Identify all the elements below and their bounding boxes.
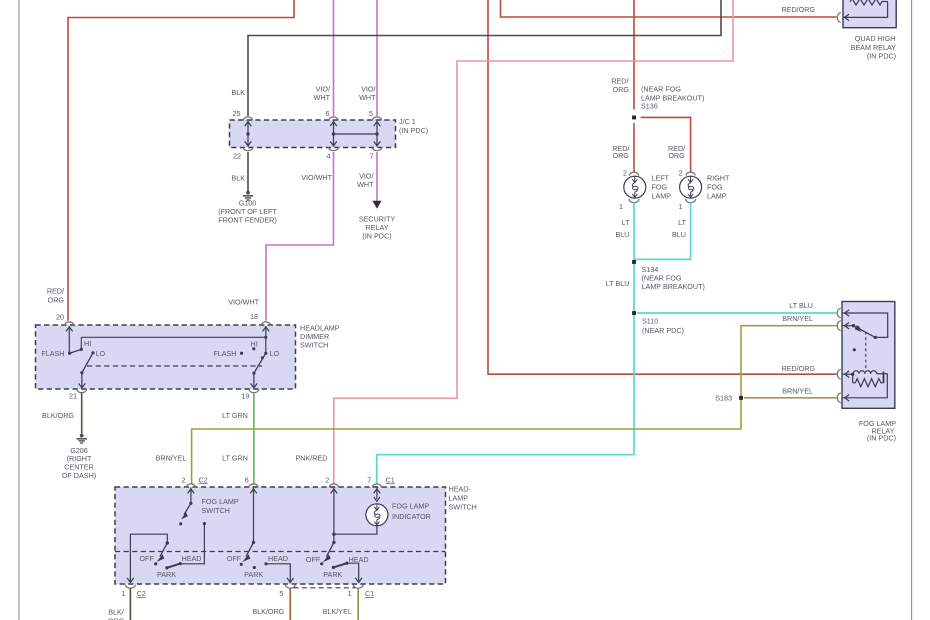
fog lamp indicator bottom leg	[334, 526, 377, 534]
dimmer pin numbers	[56, 312, 258, 401]
S110 labels	[642, 316, 684, 335]
svg-text:25: 25	[233, 109, 241, 118]
headlamp dimmer switch box	[36, 325, 296, 389]
fog lamp indicator leg from pin 7	[374, 488, 381, 502]
right fog lamp dome	[686, 172, 695, 175]
svg-text:BLK: BLK	[231, 88, 245, 97]
svg-text:OFF: OFF	[306, 555, 321, 564]
dimmer right blade to pin 19	[251, 353, 266, 388]
svg-text:2: 2	[679, 168, 683, 177]
svg-text:OFF: OFF	[227, 554, 242, 563]
headlamp switch bottom pin numbers	[121, 589, 374, 598]
fog lamp indicator label	[392, 502, 431, 521]
right fog lamp cup	[686, 199, 696, 203]
middle bank PARK contact	[253, 566, 256, 569]
quad relay connector	[837, 12, 840, 22]
svg-text:1: 1	[348, 589, 352, 598]
splice S183	[739, 396, 743, 400]
label BRN/YEL at headlamp switch	[156, 454, 187, 463]
wire RED/ORG to quad high beam relay	[501, 0, 837, 17]
svg-text:18: 18	[250, 312, 258, 321]
svg-text:7: 7	[367, 475, 371, 484]
wire RED/ORG from top to dimmer pin 20	[68, 0, 294, 321]
svg-text:FOG LAMP: FOG LAMP	[392, 502, 429, 511]
dimmer left blade to HI contact	[70, 337, 83, 353]
quad relay entry arrow	[845, 14, 850, 21]
svg-text:FLASH: FLASH	[213, 349, 236, 358]
labels LT BLU at fog lamps	[616, 218, 687, 239]
svg-text:(NEAR PDC): (NEAR PDC)	[642, 326, 684, 335]
svg-text:5: 5	[279, 589, 283, 598]
dimmer HI bus line	[81, 336, 267, 339]
middle bank HEAD contact to pin 5	[264, 562, 293, 583]
headlamp switch bottom wire BLK/ pin 1 C2	[129, 588, 131, 620]
svg-text:20: 20	[56, 312, 64, 321]
dimmer pin 18 dome	[261, 322, 270, 325]
middle bank: pin 6 leg and pivot	[250, 488, 257, 545]
svg-text:LAMP: LAMP	[707, 191, 727, 200]
svg-text:SWITCH: SWITCH	[300, 340, 328, 349]
svg-text:WHT: WHT	[314, 93, 331, 102]
headlamp switch bottom pin cups	[125, 585, 363, 589]
dimmer right FLASH and HI contacts	[240, 347, 255, 355]
right fog lamp label	[707, 173, 730, 200]
svg-text:SWITCH: SWITCH	[202, 506, 230, 515]
svg-text:6: 6	[245, 475, 249, 484]
svg-text:LO: LO	[96, 349, 106, 358]
wire LT BLU S110 to fog lamp relay	[637, 312, 837, 314]
fog lamp indicator bulb	[366, 504, 388, 526]
headlamp switch bottom wire BLK/ORG pin 5	[289, 588, 291, 620]
fog relay open contact dot	[853, 348, 856, 351]
J/C 1 internal bus pin 6 to pin 5	[334, 133, 378, 135]
labels VIO/WHT pin 7	[357, 171, 374, 189]
fog lamp pin numbers	[619, 168, 683, 211]
J/C pin cups (bottom)	[243, 147, 382, 151]
wire BRN/YEL S183 to fog relay pin 4	[744, 397, 837, 399]
S134 labels	[642, 265, 705, 291]
svg-text:ORG: ORG	[613, 85, 630, 94]
headlamp switch label	[449, 485, 477, 512]
svg-text:ORG: ORG	[48, 296, 65, 305]
svg-text:VIO/WHT: VIO/WHT	[301, 173, 332, 182]
left bank: pin 1 C2 wire and pivot	[127, 534, 169, 583]
left bank blade to OFF	[154, 543, 167, 565]
svg-text:HEAD-: HEAD-	[449, 485, 472, 494]
left bank position labels	[139, 554, 201, 579]
dimmer left switch: pin 20 leg	[66, 326, 73, 355]
S136 labels	[611, 77, 704, 111]
svg-text:RED/: RED/	[47, 287, 64, 296]
svg-text:BLK/: BLK/	[108, 608, 124, 617]
middle bank position labels	[227, 554, 288, 579]
svg-text:BLK/ORG: BLK/ORG	[252, 607, 284, 616]
J/C 1 internal column pin 25/22	[246, 121, 249, 147]
headlamp switch top pin numbers	[182, 475, 395, 484]
left page border line	[18, 0, 20, 620]
svg-text:HI: HI	[84, 339, 91, 348]
svg-text:(IN PDC): (IN PDC)	[399, 126, 428, 135]
svg-text:LT GRN: LT GRN	[222, 454, 248, 463]
svg-text:RED/ORG: RED/ORG	[781, 5, 815, 14]
label PNK/RED at headlamp switch	[296, 454, 328, 463]
svg-text:21: 21	[69, 391, 77, 400]
J/C 1 internal column pin 5/7	[375, 121, 378, 147]
dimmer right switch: pin 18 leg	[263, 326, 270, 355]
svg-text:BLK/YEL: BLK/YEL	[323, 607, 352, 616]
label BLK pin 25	[231, 88, 245, 97]
svg-text:C2: C2	[199, 475, 208, 484]
svg-text:19: 19	[242, 391, 250, 400]
svg-text:BRN/YEL: BRN/YEL	[782, 314, 813, 323]
right fog lamp bulb	[680, 176, 702, 198]
left fog lamp dome	[629, 172, 638, 175]
label VIO/WHT near pin 4	[301, 173, 332, 182]
security relay arrow	[372, 201, 381, 209]
label LT BLU at relay	[789, 301, 813, 310]
label BLK/ (clipped)	[108, 608, 125, 620]
label BRN/YEL (relay pin 4)	[782, 387, 813, 396]
svg-text:6: 6	[326, 109, 330, 118]
labels LT GRN	[222, 411, 248, 463]
J/C 1 internal column pin 6/4	[332, 121, 335, 147]
label BLK/ORG	[42, 411, 74, 420]
fog relay coil with parallel resistor	[843, 371, 888, 401]
right bank blade to OFF	[320, 542, 334, 565]
svg-text:LT BLU: LT BLU	[789, 301, 813, 310]
wire LT GRN dimmer pin 19 to headlamp switch pin 6	[253, 393, 255, 485]
svg-text:WHT: WHT	[359, 93, 376, 102]
svg-text:5: 5	[369, 109, 373, 118]
dashed connector link pin 5 to pin 1 C1	[294, 587, 356, 589]
svg-text:(IN PDC): (IN PDC)	[362, 232, 391, 241]
svg-text:QUAD HIGH: QUAD HIGH	[855, 34, 896, 43]
S183 label	[715, 393, 732, 402]
svg-text:S183: S183	[715, 393, 732, 402]
label BLK/ORG	[252, 607, 284, 616]
splice S110	[632, 311, 636, 315]
svg-text:S110: S110	[642, 316, 658, 325]
svg-text:(NEAR FOG: (NEAR FOG	[641, 84, 681, 93]
dimmer pin 20 dome	[65, 322, 74, 325]
label RED/ORG at fog relay	[781, 364, 815, 373]
ground G100	[243, 191, 253, 200]
left bank PARK blade	[165, 564, 180, 570]
wire VIO/WHT to J/C pin 6	[333, 0, 335, 116]
svg-text:RED/ORG: RED/ORG	[781, 364, 815, 373]
label LT BLU below S134	[606, 279, 630, 288]
G206 label	[62, 446, 96, 480]
svg-text:FOG: FOG	[652, 182, 668, 191]
wire VIO/WHT from J/C pin 7 to security relay	[376, 152, 378, 201]
J/C pin domes (top)	[243, 117, 381, 120]
wire VIO/WHT to J/C pin 5	[376, 0, 378, 116]
fog relay connectors	[837, 308, 840, 403]
J/C 1 label	[399, 117, 428, 135]
svg-text:VIO/WHT: VIO/WHT	[228, 298, 259, 307]
fog lamp switch output contact to HEAD contact	[180, 522, 206, 564]
svg-text:BRN/YEL: BRN/YEL	[782, 387, 813, 396]
label VIO/WHT above dimmer pin 18	[228, 298, 259, 307]
right bank: pin 2 C1 leg and pivot	[331, 488, 338, 545]
wire label RED/ORG (dimmer feed)	[47, 287, 65, 305]
svg-text:1: 1	[679, 202, 683, 211]
svg-text:PARK: PARK	[323, 570, 342, 579]
wire PNK/RED from top to headlamp switch pin 2 C1	[334, 0, 733, 484]
fog relay internal: BRN/YEL leg and blade	[843, 322, 876, 337]
svg-text:C1: C1	[386, 475, 395, 484]
left fog lamp label	[652, 173, 672, 200]
svg-text:2: 2	[623, 168, 627, 177]
labels VIO/WHT above J/C	[314, 85, 376, 103]
svg-text:BEAM RELAY: BEAM RELAY	[851, 43, 897, 52]
headlamp switch box	[115, 487, 446, 584]
dimmer left contact labels	[41, 339, 105, 358]
wire RED/ORG fog lamp feed with splice S136	[634, 0, 691, 172]
svg-text:INDICATOR: INDICATOR	[392, 512, 431, 521]
svg-text:ORG: ORG	[108, 617, 125, 620]
svg-text:BLU: BLU	[616, 230, 630, 239]
svg-text:J/C 1: J/C 1	[399, 117, 416, 126]
headlamp dimmer switch label	[300, 323, 340, 349]
svg-text:WHT: WHT	[357, 180, 374, 189]
wire RED/ORG to fog lamp relay	[488, 0, 837, 374]
splice S134	[632, 260, 636, 264]
svg-text:LAMP: LAMP	[652, 191, 672, 200]
svg-text:2: 2	[182, 475, 186, 484]
wire BLK to J/C pin 25	[248, 0, 721, 116]
left bank HEAD contact dot	[179, 562, 182, 565]
svg-text:ORG: ORG	[613, 151, 630, 160]
svg-text:BLK: BLK	[231, 174, 245, 183]
svg-text:LO: LO	[270, 349, 280, 358]
fog lamp relay box	[842, 302, 895, 409]
svg-text:7: 7	[370, 151, 374, 160]
svg-text:PNK/RED: PNK/RED	[296, 454, 328, 463]
J/C pin numbers	[233, 109, 374, 160]
ground G206	[77, 434, 87, 443]
svg-text:SWITCH: SWITCH	[449, 503, 477, 512]
headlamp switch bottom wire BLK/YEL pin 1 C1	[357, 588, 359, 620]
fog lamp switch leg from pin 2 C2	[188, 488, 195, 505]
svg-text:LT: LT	[678, 218, 686, 227]
dimmer left LO contact and blade to pin 21	[79, 351, 95, 388]
junction block J/C 1 (IN PDC) box	[230, 120, 396, 148]
wire BLK/ORG dimmer pin 21 to G206	[81, 393, 83, 434]
svg-text:FOG LAMP: FOG LAMP	[202, 497, 239, 506]
svg-text:S136: S136	[641, 102, 658, 111]
svg-text:1: 1	[121, 589, 125, 598]
fog lamp switch blade (open)	[179, 503, 191, 525]
wire labels RED/ORG at fog lamps	[612, 144, 685, 160]
svg-text:FLASH: FLASH	[41, 349, 64, 358]
label BLK pin 22	[231, 174, 245, 183]
fog lamp relay label	[859, 419, 896, 443]
fog relay internal: LT BLU leg to fixed contact	[843, 310, 888, 339]
svg-text:HEAD: HEAD	[349, 555, 369, 564]
right bank position labels	[306, 555, 369, 579]
svg-text:1: 1	[619, 202, 623, 211]
svg-text:(IN PDC): (IN PDC)	[867, 52, 896, 61]
security relay label	[359, 215, 396, 241]
svg-text:LAMP: LAMP	[449, 494, 469, 503]
dimmer pin 19 cup	[249, 389, 259, 393]
wire VIO/WHT from J/C pin 4 to dimmer pin 18	[266, 152, 334, 321]
svg-text:LEFT: LEFT	[652, 173, 670, 182]
wire label RED/ORG (quad relay)	[781, 5, 815, 14]
J/C pin arrows	[245, 122, 381, 146]
label BRN/YEL (relay pin 2)	[782, 314, 813, 323]
splice S136	[632, 116, 636, 120]
dimmer pin 21 cup	[77, 389, 87, 393]
wire LT BLU right fog lamp to S134	[634, 203, 691, 260]
svg-text:LT BLU: LT BLU	[606, 279, 630, 288]
svg-text:PARK: PARK	[244, 570, 263, 579]
svg-text:4: 4	[327, 151, 331, 160]
svg-text:BRN/YEL: BRN/YEL	[156, 454, 187, 463]
svg-text:2: 2	[325, 475, 329, 484]
svg-text:ORG: ORG	[668, 151, 685, 160]
svg-text:FOG: FOG	[707, 182, 723, 191]
wire LT BLU left fog lamp to S134 to S110 to headlamp switch pin 7	[377, 203, 634, 485]
svg-text:BLK/ORG: BLK/ORG	[42, 411, 74, 420]
quad high beam relay label	[851, 34, 897, 60]
quad high beam relay box	[843, 0, 896, 28]
svg-text:RIGHT: RIGHT	[707, 173, 730, 182]
svg-text:HI: HI	[251, 339, 258, 348]
svg-text:C1: C1	[365, 589, 374, 598]
svg-text:C2: C2	[137, 589, 146, 598]
svg-text:BLU: BLU	[672, 230, 686, 239]
middle bank blade to OFF	[240, 542, 254, 566]
svg-text:HEAD: HEAD	[268, 554, 288, 563]
right bank PARK to HEAD blade	[332, 563, 347, 569]
dimmer right contact labels	[213, 339, 279, 358]
label BLK/YEL	[323, 607, 352, 616]
svg-text:OFF: OFF	[139, 554, 154, 563]
left fog lamp bulb	[624, 176, 646, 198]
fog lamp switch label	[202, 497, 239, 515]
svg-text:22: 22	[233, 151, 241, 160]
wire BLK from J/C pin 22 to G100	[247, 152, 249, 191]
left fog lamp cup	[629, 199, 639, 203]
headlamp switch top pin domes	[186, 484, 381, 487]
G100 label	[218, 199, 277, 225]
right page border line	[911, 0, 913, 620]
svg-text:LAMP BREAKOUT): LAMP BREAKOUT)	[642, 282, 705, 291]
svg-text:FRONT FENDER): FRONT FENDER)	[218, 216, 277, 225]
fog relay armature dashed link	[865, 332, 867, 371]
wire BRN/YEL fog relay pin 2 to S183 and down to headlamp switch pin 2 C2	[192, 326, 837, 485]
svg-text:OF DASH): OF DASH)	[62, 471, 96, 480]
svg-text:LT: LT	[622, 218, 630, 227]
svg-text:HEAD: HEAD	[182, 554, 202, 563]
svg-text:(IN PDC): (IN PDC)	[867, 434, 896, 443]
svg-text:LT GRN: LT GRN	[222, 411, 248, 420]
svg-text:PARK: PARK	[157, 570, 176, 579]
right bank HEAD contact to pin 1 C1	[345, 562, 362, 583]
